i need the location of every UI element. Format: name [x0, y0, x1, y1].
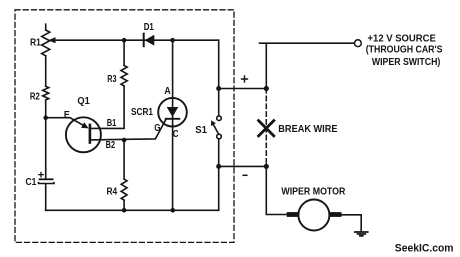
C1 plus polarity mark [39, 172, 43, 176]
svg-text:BREAK WIRE: BREAK WIRE [278, 123, 337, 135]
capacitor C1 bottom plate (curved) [39, 182, 55, 184]
diode D1 triangle [145, 35, 155, 46]
wire: bottom bus y=210.3 [46, 209, 219, 211]
node: R3 top junction dot [122, 38, 127, 43]
R1 wiper arrowhead [48, 37, 55, 43]
wiper motor right brush bar [330, 212, 342, 217]
wire: down and right to wiper motor [266, 166, 287, 214]
wire: left column R1 bottom to R2 top [45, 56, 47, 86]
node: SCR anode top junction dot [170, 38, 175, 43]
svg-text:SeekIC.com: SeekIC.com [395, 242, 454, 254]
capacitor C1 top plate [39, 178, 54, 180]
svg-text:A: A [164, 85, 171, 97]
wire: top bus y=40.2 from R1 wiper arrow to right corner [53, 39, 219, 41]
wire: motor to ground [342, 215, 362, 232]
wire: R4 bottom to bottom bus [123, 200, 125, 210]
resistor R1 zigzag [42, 30, 50, 56]
wire: SCR1 anode line from top bus through circle to bottom bus [172, 40, 174, 210]
svg-text:R1: R1 [30, 37, 41, 49]
resistor R3 zigzag [121, 65, 127, 86]
node: minus-wire junction dot [216, 164, 221, 169]
resistor R4 zigzag [121, 179, 127, 200]
wire: R4 column from B2 junction [123, 140, 125, 179]
wire: plus wire to break-wire node [219, 88, 267, 90]
svg-text:C1: C1 [26, 176, 37, 188]
wiper motor left brush bar [287, 212, 299, 217]
svg-text:D1: D1 [144, 21, 154, 33]
svg-text:Q1: Q1 [77, 95, 90, 107]
svg-text:(THROUGH CAR'S: (THROUGH CAR'S [366, 44, 443, 56]
node: break-wire top junction dot [264, 86, 269, 91]
SCR1 triangle [167, 107, 179, 117]
minus polarity symbol [243, 174, 247, 176]
wire: C1 bottom to bottom-left corner [45, 184, 47, 210]
dashed enclosure box [15, 10, 234, 243]
wire: minus wire from S1 column to break-wire node [219, 165, 267, 167]
svg-text:+12 V SOURCE: +12 V SOURCE [368, 32, 436, 44]
node: B2/R4 junction dot [122, 138, 127, 143]
node: SCR cathode bottom junction dot [171, 208, 176, 213]
switch S1 top terminal [217, 116, 222, 121]
svg-text:S1: S1 [195, 124, 207, 136]
svg-text:E: E [64, 109, 70, 121]
wire: up to +12V source line [260, 43, 355, 88]
node: break-wire bottom junction dot [264, 164, 269, 169]
svg-text:B2: B2 [106, 139, 116, 151]
SCR1 circle [158, 98, 187, 127]
node E junction dot [43, 115, 48, 120]
Q1 emitter arrowhead [81, 122, 89, 128]
svg-text:C: C [173, 128, 179, 140]
svg-text:SCR1: SCR1 [131, 106, 153, 118]
diode D1 cathode bar [143, 34, 145, 47]
Q1 base bar [89, 125, 92, 143]
svg-text:B1: B1 [107, 117, 117, 129]
svg-text:WIPER MOTOR: WIPER MOTOR [281, 186, 345, 198]
wire: S1 bottom terminal down to bottom bus [218, 139, 220, 211]
node: plus-wire junction dot [216, 86, 221, 91]
break wire X symbol [259, 121, 274, 136]
node: R4 bottom junction dot [122, 208, 127, 213]
svg-text:R4: R4 [107, 186, 118, 198]
S1 blade arrowhead [211, 120, 216, 126]
transistor Q1 circle (UJT) [66, 117, 101, 152]
svg-text:G: G [154, 122, 160, 134]
plus polarity symbol [242, 76, 248, 82]
wiper motor circle [298, 200, 329, 231]
svg-text:R3: R3 [107, 73, 116, 85]
wire: dashed break-wire segment [265, 89, 267, 167]
wire: B1 lead from base bar to R3 column [90, 86, 124, 128]
wire: emitter lead from E junction into Q1 [46, 118, 85, 126]
switch S1 blade [213, 124, 219, 135]
resistor R2 zigzag [43, 86, 49, 100]
wire: R2 bottom to E junction to C1 [45, 100, 47, 179]
wire: right column from top bus corner down to S1 [218, 40, 220, 116]
ground [355, 232, 368, 236]
switch S1 bottom terminal [217, 134, 222, 139]
terminal: +12V source open circle [355, 40, 362, 47]
svg-text:WIPER SWITCH): WIPER SWITCH) [372, 56, 440, 68]
wire: B2 lead from base bar to gate of SCR1 [90, 119, 166, 140]
svg-text:R2: R2 [30, 90, 40, 102]
resistor R1 (potentiometer) top stub [45, 24, 47, 30]
SCR1 cathode bar [166, 118, 180, 120]
wire: R3 column top [123, 40, 125, 65]
